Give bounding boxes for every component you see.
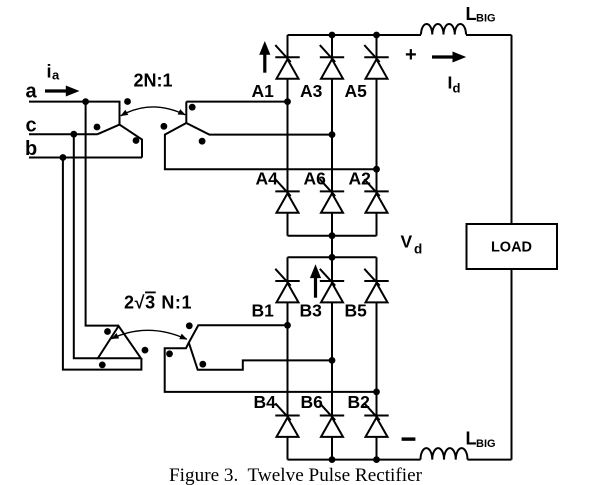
svg-text:A4: A4 xyxy=(256,169,279,189)
svg-text:+: + xyxy=(405,44,417,66)
svg-text:A1: A1 xyxy=(252,81,275,101)
svg-text:i: i xyxy=(47,62,52,82)
svg-text:A5: A5 xyxy=(345,81,368,101)
svg-text:a: a xyxy=(52,68,60,83)
svg-text:c: c xyxy=(26,115,37,137)
svg-text:B3: B3 xyxy=(300,301,323,321)
svg-text:B6: B6 xyxy=(301,392,324,412)
svg-text:d: d xyxy=(414,241,422,256)
svg-text:L: L xyxy=(466,4,477,24)
svg-text:LOAD: LOAD xyxy=(491,240,532,256)
svg-text:B2: B2 xyxy=(348,392,371,412)
svg-text:B1: B1 xyxy=(252,301,275,321)
svg-text:V: V xyxy=(401,232,413,252)
svg-text:b: b xyxy=(25,138,37,160)
svg-text:L: L xyxy=(466,429,477,449)
svg-text:B4: B4 xyxy=(254,392,277,412)
svg-text:A6: A6 xyxy=(304,169,327,189)
svg-text:a: a xyxy=(26,81,38,103)
svg-text:A3: A3 xyxy=(300,81,323,101)
svg-text:2N:1: 2N:1 xyxy=(134,71,173,91)
svg-text:B5: B5 xyxy=(345,301,368,321)
svg-text:2√3 N:1: 2√3 N:1 xyxy=(124,293,192,313)
svg-text:d: d xyxy=(453,81,461,96)
svg-text:BIG: BIG xyxy=(476,13,496,25)
svg-text:A2: A2 xyxy=(349,169,372,189)
svg-text:BIG: BIG xyxy=(476,438,496,450)
svg-text:Figure 3. Twelve Pulse Rectif: Figure 3. Twelve Pulse Rectifier xyxy=(169,465,423,485)
